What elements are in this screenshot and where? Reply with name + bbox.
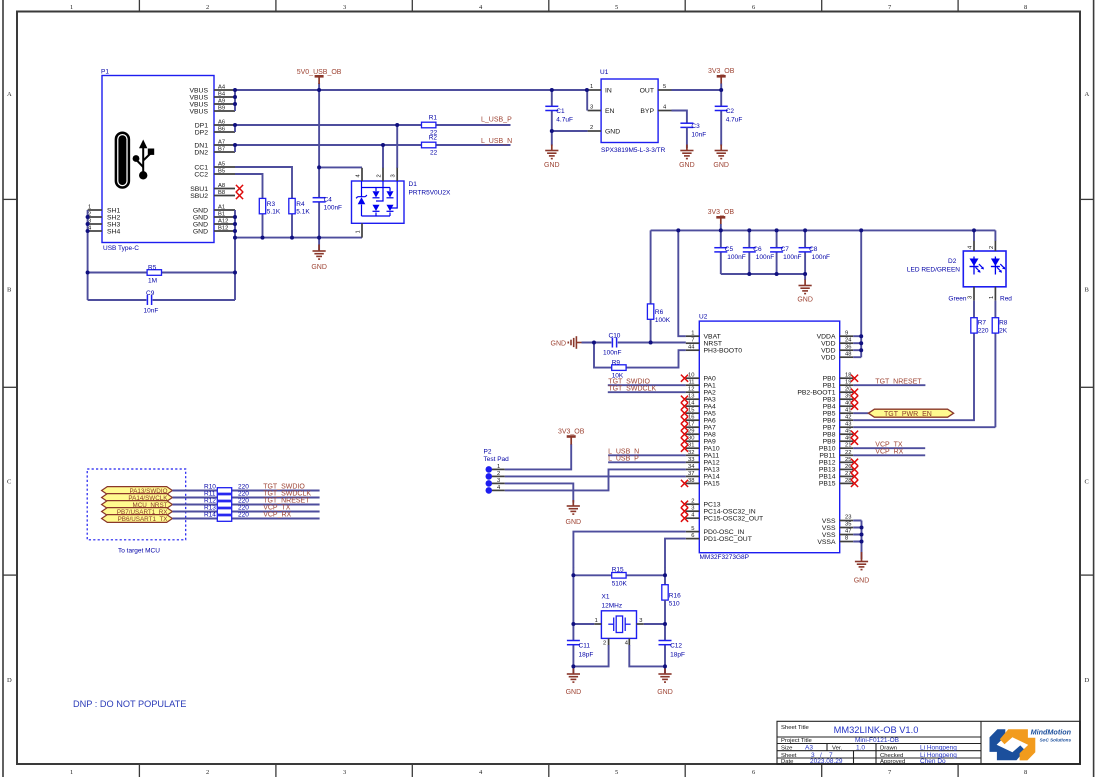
svg-text:PA11: PA11 [704, 453, 720, 460]
svg-text:A: A [1085, 91, 1090, 98]
svg-text:TGT_PWR_EN: TGT_PWR_EN [884, 411, 932, 418]
svg-text:B5: B5 [218, 169, 225, 175]
svg-text:To target MCU: To target MCU [118, 548, 160, 555]
svg-text:26: 26 [845, 464, 851, 470]
svg-text:PA13: PA13 [704, 467, 720, 474]
svg-text:220: 220 [238, 498, 249, 505]
svg-text:3V3_OB: 3V3_OB [708, 209, 735, 216]
junction dots U1 area [550, 88, 723, 133]
svg-text:GND: GND [566, 689, 582, 696]
svg-text:EN: EN [605, 108, 615, 115]
svg-text:C2: C2 [726, 108, 735, 115]
wire PB7 to R8 [853, 426, 995, 428]
diode D1 PRTR5V0U2X [352, 168, 451, 238]
diode D2 LED RED/GREEN [907, 240, 1012, 302]
net label L_USB_P mcu [608, 456, 686, 463]
svg-text:B4: B4 [218, 92, 226, 98]
svg-text:5: 5 [615, 4, 618, 11]
svg-text:5: 5 [663, 84, 666, 90]
port TGT_PWR_EN [853, 409, 953, 418]
svg-text:DN1: DN1 [194, 142, 208, 149]
net label TGT_SWDIO flag [263, 484, 305, 491]
svg-text:C7: C7 [781, 246, 790, 253]
svg-text:PA1: PA1 [704, 383, 717, 390]
svg-text:VDD: VDD [821, 355, 835, 362]
svg-text:OUT: OUT [640, 88, 654, 95]
svg-text:D1: D1 [409, 181, 418, 188]
svg-text:C: C [1085, 479, 1089, 486]
svg-text:R7: R7 [978, 320, 987, 327]
svg-text:1: 1 [590, 84, 593, 90]
wire BYP to C3 [672, 111, 687, 124]
svg-text:19: 19 [845, 380, 851, 386]
svg-text:R11: R11 [204, 491, 216, 498]
ground under C4 [311, 245, 327, 272]
svg-text:36: 36 [845, 345, 851, 351]
svg-text:25: 25 [845, 457, 851, 463]
port MCU_NRST [102, 501, 173, 510]
svg-text:VBUS: VBUS [189, 108, 208, 115]
wire crystal pin2 gnd [573, 645, 608, 666]
svg-text:D2: D2 [948, 258, 957, 265]
svg-text:12: 12 [688, 387, 694, 393]
ground under P2 [566, 500, 582, 526]
U2 right pin stubs [840, 336, 854, 541]
net label VCP_RX [853, 448, 925, 455]
svg-text:USB Type-C: USB Type-C [103, 245, 139, 252]
svg-text:SH1: SH1 [107, 207, 120, 214]
USB icon [116, 133, 154, 188]
svg-text:220: 220 [238, 505, 249, 512]
svg-text:GND: GND [193, 228, 208, 235]
svg-text:IN: IN [605, 88, 612, 95]
svg-text:18: 18 [845, 373, 851, 379]
title block [777, 721, 1080, 765]
svg-text:5.1K: 5.1K [296, 209, 310, 216]
svg-text:PC15-OSC32_OUT: PC15-OSC32_OUT [704, 516, 764, 523]
svg-text:VBAT: VBAT [704, 334, 721, 341]
wire D1 pin2 pin3 verticals [383, 125, 397, 168]
svg-text:Size: Size [781, 746, 793, 752]
svg-text:Mini-F0121-OB: Mini-F0121-OB [855, 737, 899, 744]
capacitor C2 4.7uF [715, 90, 743, 146]
svg-text:A5: A5 [218, 162, 225, 168]
resistor R12 220 [204, 498, 249, 508]
svg-text:6: 6 [691, 533, 694, 539]
net label VCP_RX flag [263, 512, 291, 519]
svg-text:A4: A4 [218, 85, 226, 91]
wire PB6 to R7 [853, 419, 974, 421]
svg-text:CC1: CC1 [194, 164, 208, 171]
power 3V3_OB rail [708, 209, 735, 230]
svg-text:GND: GND [544, 162, 560, 169]
svg-text:5: 5 [615, 769, 618, 776]
svg-text:R9: R9 [612, 360, 621, 367]
net label VCP_TX flag [263, 505, 291, 512]
svg-text:TGT_NRESET: TGT_NRESET [263, 498, 310, 505]
svg-text:DNP : DO NOT POPULATE: DNP : DO NOT POPULATE [73, 699, 186, 709]
svg-text:VSS: VSS [822, 525, 836, 532]
MindMotion logo [990, 728, 1072, 761]
svg-text:1: 1 [70, 769, 73, 776]
svg-text:Green: Green [948, 296, 966, 303]
svg-text:Project Title: Project Title [781, 738, 812, 744]
svg-text:R6: R6 [655, 309, 664, 316]
svg-text:1: 1 [356, 230, 362, 233]
svg-text:A: A [7, 91, 12, 98]
svg-text:220: 220 [238, 491, 249, 498]
svg-text:PA10: PA10 [704, 446, 720, 453]
capacitor C11 18pF [567, 641, 593, 659]
svg-text:8: 8 [845, 536, 848, 542]
svg-text:Sheet Title: Sheet Title [781, 725, 810, 731]
svg-text:30: 30 [688, 436, 694, 442]
svg-text:8: 8 [1024, 769, 1027, 776]
connector P2 Test Pad [484, 449, 510, 494]
resistor R4 5.1K [289, 198, 311, 215]
svg-text:R8: R8 [999, 320, 1008, 327]
svg-text:PB1: PB1 [823, 383, 836, 390]
svg-text:A7: A7 [218, 140, 225, 146]
svg-text:PC13: PC13 [704, 502, 721, 509]
svg-text:2: 2 [691, 499, 694, 505]
svg-text:PB9: PB9 [823, 439, 836, 446]
svg-text:16: 16 [688, 415, 694, 421]
svg-text:100K: 100K [655, 317, 671, 324]
ground sideways at C10 [551, 336, 582, 349]
svg-text:46: 46 [845, 436, 851, 442]
svg-text:Test Pad: Test Pad [484, 456, 510, 463]
svg-text:B: B [7, 287, 12, 294]
svg-text:P1: P1 [101, 69, 109, 76]
svg-text:Ver.: Ver. [832, 746, 843, 752]
svg-text:2023.08.29: 2023.08.29 [810, 758, 843, 765]
svg-text:Drawn: Drawn [880, 746, 897, 752]
svg-text:SBU2: SBU2 [190, 193, 208, 200]
wire P2 pin3 to gnd [505, 483, 574, 502]
svg-text:Red: Red [1000, 296, 1012, 303]
svg-text:Approved: Approved [880, 759, 905, 765]
svg-text:C11: C11 [579, 643, 591, 650]
svg-text:100nF: 100nF [756, 254, 774, 261]
capacitor C12 18pF [659, 641, 685, 659]
wire VDD rail drop [853, 230, 861, 357]
wire P2 pin1 to 3V3 [505, 444, 572, 469]
resistor R6 100K [647, 230, 670, 342]
MCU U2 MM32F3273G8P [686, 314, 853, 562]
svg-text:A8: A8 [218, 183, 225, 189]
svg-text:7: 7 [691, 338, 694, 344]
svg-text:SPX3819M5-L-3-3/TR: SPX3819M5-L-3-3/TR [601, 147, 666, 154]
svg-text:3: 3 [343, 4, 346, 11]
svg-text:10: 10 [688, 373, 694, 379]
svg-text:GND: GND [713, 162, 729, 169]
svg-text:1: 1 [691, 331, 694, 337]
ground under C1 [544, 145, 560, 170]
svg-text:35: 35 [845, 522, 851, 528]
port PA13/SWDIO [102, 487, 173, 496]
svg-text:R12: R12 [204, 498, 216, 505]
resistor R8 2K [992, 318, 1008, 335]
svg-text:VBUS: VBUS [189, 87, 208, 94]
svg-text:SoC Solutions: SoC Solutions [1040, 738, 1072, 743]
svg-text:PB14: PB14 [819, 474, 836, 481]
resistor R5 1M [147, 265, 161, 285]
svg-text:Li Hongpeng: Li Hongpeng [920, 745, 957, 752]
svg-text:C5: C5 [725, 246, 734, 253]
wire DP1 to R1 [235, 124, 511, 126]
svg-text:2K: 2K [999, 328, 1008, 335]
svg-text:33: 33 [688, 457, 694, 463]
svg-text:C12: C12 [670, 643, 682, 650]
net label TGT_SWDCLK [608, 386, 686, 393]
svg-text:13: 13 [688, 394, 694, 400]
svg-text:C4: C4 [324, 197, 333, 204]
svg-text:42: 42 [845, 415, 851, 421]
svg-text:PB4: PB4 [823, 404, 836, 411]
svg-text:GND: GND [854, 578, 870, 585]
wire VSS gnd drop [853, 521, 861, 560]
svg-text:VDD: VDD [821, 348, 835, 355]
DNP note [73, 699, 186, 709]
svg-text:17: 17 [688, 422, 694, 428]
wire OUT to C2 [672, 89, 722, 91]
wire rail to D2 pin2 [994, 230, 996, 240]
svg-text:1: 1 [497, 464, 500, 470]
svg-text:3V3_OB: 3V3_OB [558, 429, 585, 436]
svg-text:VDDA: VDDA [817, 334, 836, 341]
svg-text:P2: P2 [484, 449, 492, 456]
svg-text:VSSA: VSSA [817, 539, 836, 546]
svg-text:GND: GND [657, 689, 673, 696]
svg-text:R10: R10 [204, 484, 216, 491]
svg-text:GND: GND [551, 341, 567, 348]
svg-text:PA15: PA15 [704, 481, 720, 488]
svg-text:2: 2 [989, 246, 995, 249]
svg-text:PB6/USART1_TX: PB6/USART1_TX [118, 516, 169, 523]
svg-text:Chen Do: Chen Do [920, 758, 946, 765]
svg-text:100nF: 100nF [603, 350, 621, 357]
svg-text:1: 1 [989, 296, 995, 299]
svg-text:34: 34 [688, 464, 695, 470]
svg-text:B6: B6 [218, 127, 225, 133]
svg-text:SH2: SH2 [107, 214, 120, 221]
svg-text:39: 39 [845, 394, 851, 400]
svg-text:GND: GND [605, 129, 620, 136]
capacitor C8 100nF [799, 230, 830, 274]
wire P2 pin2 to PA14 [505, 475, 686, 477]
svg-text:1: 1 [88, 205, 91, 211]
svg-text:1M: 1M [148, 278, 157, 285]
net label L_USB_P [481, 117, 512, 124]
svg-text:38: 38 [688, 478, 694, 484]
svg-text:510K: 510K [612, 581, 628, 588]
svg-text:B9: B9 [218, 106, 225, 112]
wire R5 C9 loop [88, 273, 235, 301]
svg-text:PC14-OSC32_IN: PC14-OSC32_IN [704, 509, 756, 516]
resistor R7 220 [971, 318, 989, 335]
svg-text:PA6: PA6 [704, 418, 717, 425]
svg-text:PB10: PB10 [819, 446, 836, 453]
svg-text:X1: X1 [602, 594, 610, 601]
svg-text:B12: B12 [218, 226, 228, 232]
no-connect X marks U2 left [681, 375, 688, 522]
junction dots P1 area [86, 88, 400, 275]
ground under C12 [657, 669, 673, 697]
svg-text:24: 24 [845, 338, 852, 344]
svg-text:D: D [1085, 677, 1090, 684]
svg-text:DP2: DP2 [195, 129, 208, 136]
svg-text:3: 3 [343, 769, 346, 776]
power 3V3_OB at P2 [558, 429, 585, 445]
svg-text:VSS: VSS [822, 518, 836, 525]
svg-text:2: 2 [603, 641, 606, 647]
svg-text:TGT_SWDCLK: TGT_SWDCLK [263, 491, 311, 498]
svg-text:GND: GND [797, 297, 813, 304]
wire CC1 to R4 [235, 167, 292, 198]
svg-text:GND: GND [311, 264, 327, 271]
resistor R2 22 [422, 135, 438, 157]
svg-text:PA9: PA9 [704, 439, 717, 446]
svg-text:45: 45 [845, 429, 851, 435]
wire EN tie to IN [586, 90, 588, 111]
P1 right pin stubs [88, 90, 235, 231]
wire D2 green to R7 to PB6 [973, 301, 975, 421]
svg-text:GND: GND [193, 207, 208, 214]
svg-text:PA3: PA3 [704, 397, 717, 404]
svg-text:220: 220 [978, 328, 989, 335]
svg-text:BYP: BYP [640, 108, 654, 115]
svg-text:R13: R13 [204, 505, 216, 512]
net label L_USB_N mcu [608, 448, 686, 455]
svg-text:SH4: SH4 [107, 228, 120, 235]
svg-text:2: 2 [377, 174, 383, 177]
svg-text:47: 47 [845, 529, 851, 535]
svg-text:100nF: 100nF [783, 254, 801, 261]
svg-text:PB2-BOOT1: PB2-BOOT1 [797, 390, 835, 397]
junction dots crystal [571, 573, 667, 668]
svg-text:5V0_USB_OB: 5V0_USB_OB [297, 69, 342, 76]
resistor R1 22 [422, 115, 438, 137]
svg-text:3: 3 [497, 478, 500, 484]
svg-text:SH3: SH3 [107, 221, 120, 228]
svg-text:R15: R15 [612, 567, 624, 574]
capacitor C5 100nF [714, 230, 745, 274]
svg-text:R3: R3 [267, 201, 276, 208]
svg-text:PA5: PA5 [704, 411, 717, 418]
svg-text:A1: A1 [218, 205, 225, 211]
svg-text:A3: A3 [805, 745, 813, 752]
svg-text:GND: GND [193, 214, 208, 221]
svg-text:PB0: PB0 [823, 376, 836, 383]
ground under C11 [566, 669, 582, 697]
svg-text:C6: C6 [753, 246, 762, 253]
wire R15 row [573, 567, 665, 624]
wire crystal row right [644, 624, 665, 673]
svg-text:PA12: PA12 [704, 460, 720, 467]
net label TGT_SWDCLK flag [263, 491, 311, 498]
svg-text:GND: GND [566, 519, 582, 526]
wire PD1 to crystal right [665, 539, 686, 568]
op-amp U1 SPX3819 regulator [588, 69, 672, 154]
svg-text:LED RED/GREEN: LED RED/GREEN [907, 267, 960, 274]
svg-text:18pF: 18pF [579, 652, 594, 659]
svg-text:PD1-OSC_OUT: PD1-OSC_OUT [704, 536, 752, 543]
svg-text:220: 220 [238, 512, 249, 519]
wire crystal row left [573, 624, 594, 673]
capacitor C6 100nF [743, 230, 774, 274]
svg-text:C: C [7, 479, 11, 486]
svg-text:VBUS: VBUS [189, 101, 208, 108]
svg-text:L_USB_N: L_USB_N [481, 138, 512, 145]
junction dot rail D2 [972, 228, 976, 232]
svg-text:100nF: 100nF [812, 254, 830, 261]
net label TGT_NRESET [853, 378, 925, 385]
wire VBAT to rail [678, 230, 686, 336]
svg-text:8: 8 [1024, 4, 1027, 11]
crystal X1 12MHz [594, 594, 644, 647]
svg-text:L_USB_P: L_USB_P [481, 117, 512, 124]
resistor R13 220 [204, 505, 249, 515]
wire 5V0 vertical / C4 [319, 83, 362, 251]
svg-text:A6: A6 [218, 120, 225, 126]
net label TGT_SWDIO [608, 378, 686, 385]
svg-text:PB7: PB7 [823, 425, 836, 432]
port PA14/SWCLK [102, 494, 173, 503]
connector P1 USB Type-C [88, 69, 235, 253]
svg-text:32: 32 [688, 450, 694, 456]
svg-text:3: 3 [590, 105, 593, 111]
svg-text:3: 3 [968, 296, 974, 299]
svg-text:TGT_SWDIO: TGT_SWDIO [263, 484, 305, 491]
svg-text:1.0: 1.0 [856, 745, 865, 752]
capacitor C9 10nF [144, 290, 159, 315]
svg-text:MindMotion: MindMotion [1031, 728, 1072, 737]
svg-text:41: 41 [845, 408, 851, 414]
no-connect X SBU2 [236, 192, 243, 199]
svg-text:44: 44 [688, 345, 695, 351]
capacitor C10 100nF [603, 333, 621, 357]
svg-text:GND: GND [193, 221, 208, 228]
svg-text:22: 22 [430, 150, 438, 157]
net label TGT_NRESET flag [263, 498, 310, 505]
svg-text:4.7uF: 4.7uF [726, 117, 743, 124]
capacitor C4 100nF [313, 197, 342, 212]
svg-text:VDD: VDD [821, 341, 835, 348]
svg-text:PB8: PB8 [823, 432, 836, 439]
svg-text:R1: R1 [429, 115, 438, 122]
svg-text:23: 23 [845, 515, 851, 521]
svg-text:31: 31 [688, 443, 694, 449]
resistor R14 220 [204, 512, 249, 522]
svg-text:DP1: DP1 [195, 122, 208, 129]
wire DN1 to R2 [235, 144, 511, 146]
svg-text:PB5: PB5 [823, 411, 836, 418]
svg-text:VCP_RX: VCP_RX [263, 512, 291, 519]
svg-text:B: B [1085, 287, 1090, 294]
svg-text:100nF: 100nF [727, 254, 745, 261]
svg-text:D: D [7, 677, 12, 684]
svg-text:R2: R2 [429, 135, 438, 142]
capacitor C1 4.7uF [545, 90, 573, 146]
svg-text:PB13: PB13 [819, 467, 836, 474]
svg-text:PH3-BOOT0: PH3-BOOT0 [704, 348, 743, 355]
svg-text:3: 3 [391, 174, 397, 177]
svg-text:40: 40 [845, 401, 851, 407]
svg-text:100nF: 100nF [324, 205, 342, 212]
svg-text:43: 43 [845, 422, 851, 428]
wire cap bank gnd bus [721, 273, 805, 275]
